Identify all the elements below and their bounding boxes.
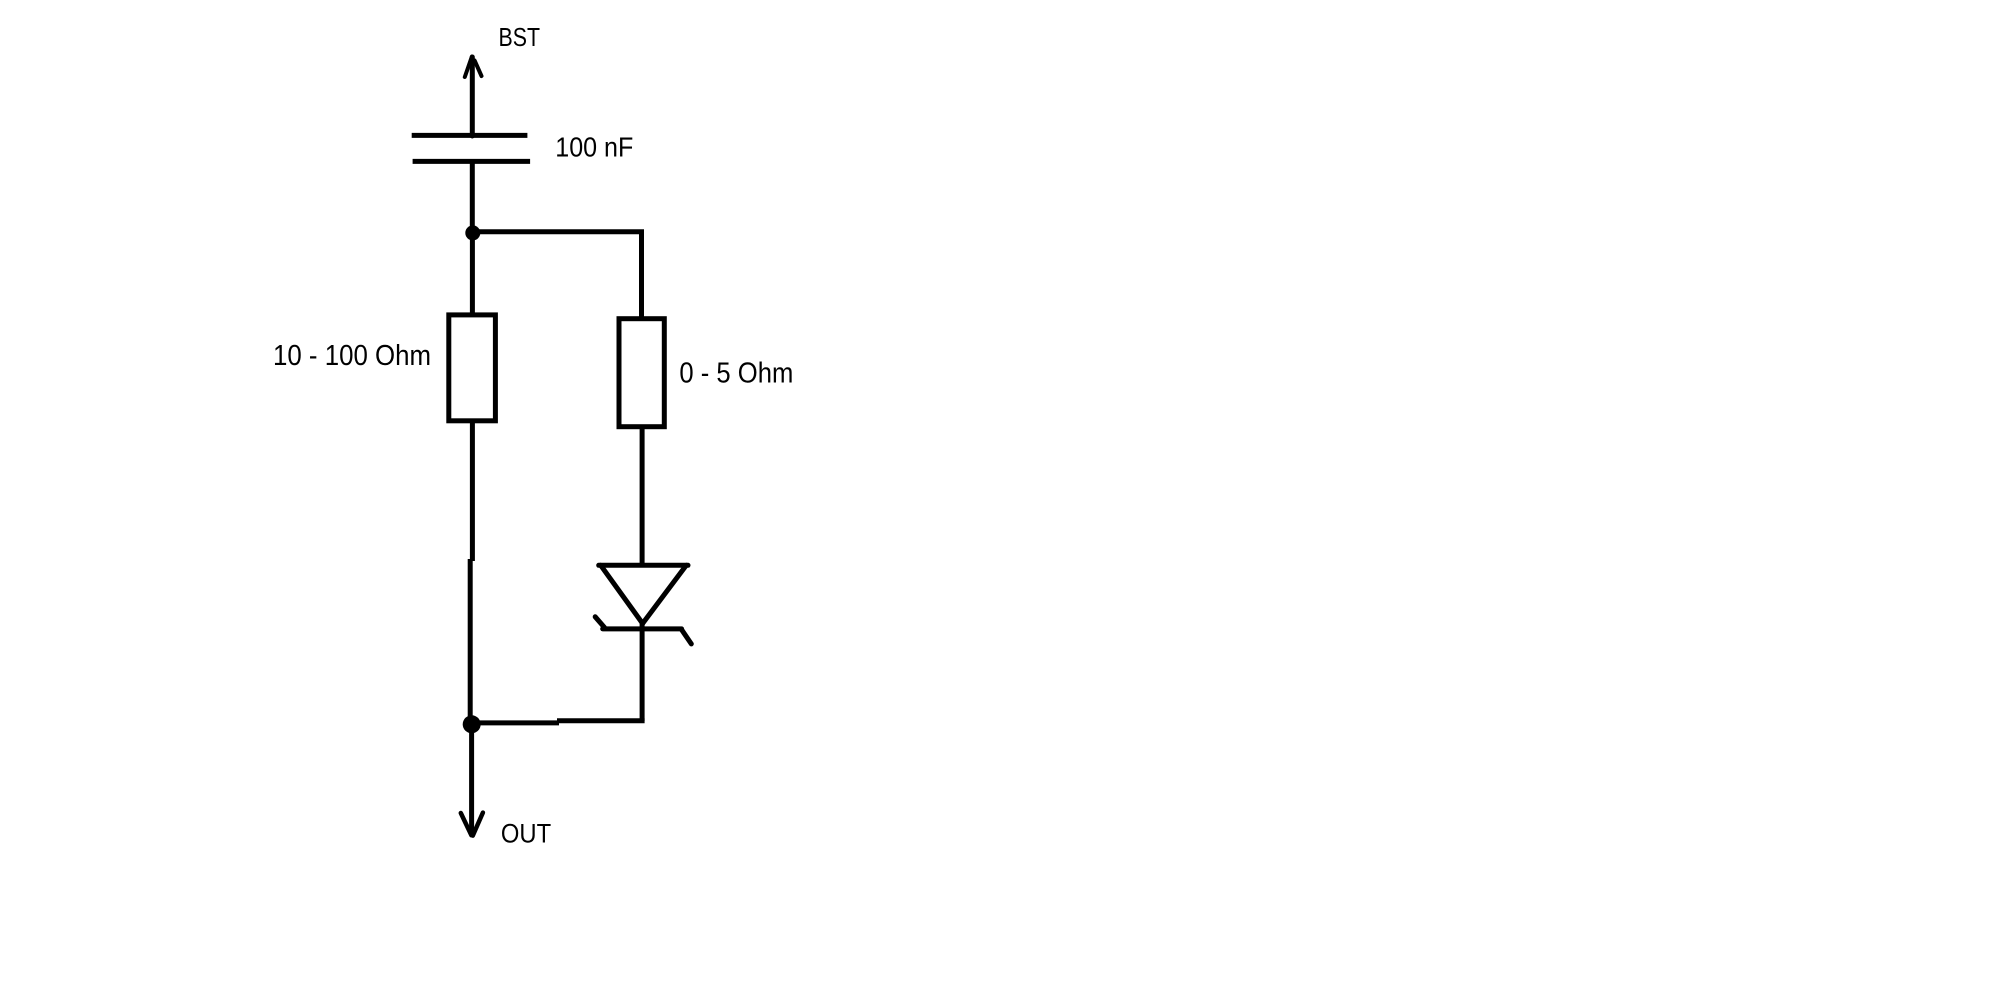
capacitor 100nF (two plates) <box>412 135 530 161</box>
node OUT (terminal arrow down) <box>461 724 483 836</box>
wire capacitor to node A <box>470 161 475 233</box>
wire node A to right branch (horizontal) <box>472 229 644 234</box>
wire bottom horizontal to node B <box>472 721 645 723</box>
resistor 0-5 Ohm <box>619 319 664 427</box>
junction node B <box>463 715 481 733</box>
svg-text:0 - 5 Ohm: 0 - 5 Ohm <box>679 357 793 389</box>
wire left resistor to node B <box>470 421 472 724</box>
svg-text:BST: BST <box>499 22 541 52</box>
junction node A <box>465 225 480 240</box>
node BST (terminal arrow up) <box>465 57 482 137</box>
wire right branch down to resistor <box>639 230 644 320</box>
zener diode (triangle + bent bar) <box>595 565 691 644</box>
wire zener to bottom horizontal <box>640 620 645 721</box>
resistor 10-100 Ohm <box>449 315 496 421</box>
wire node A down to left resistor <box>470 233 475 315</box>
wire right resistor to zener <box>640 427 645 564</box>
svg-text:100 nF: 100 nF <box>555 131 633 162</box>
svg-text:OUT: OUT <box>501 819 551 849</box>
svg-text:10 - 100 Ohm: 10 - 100 Ohm <box>273 340 431 372</box>
